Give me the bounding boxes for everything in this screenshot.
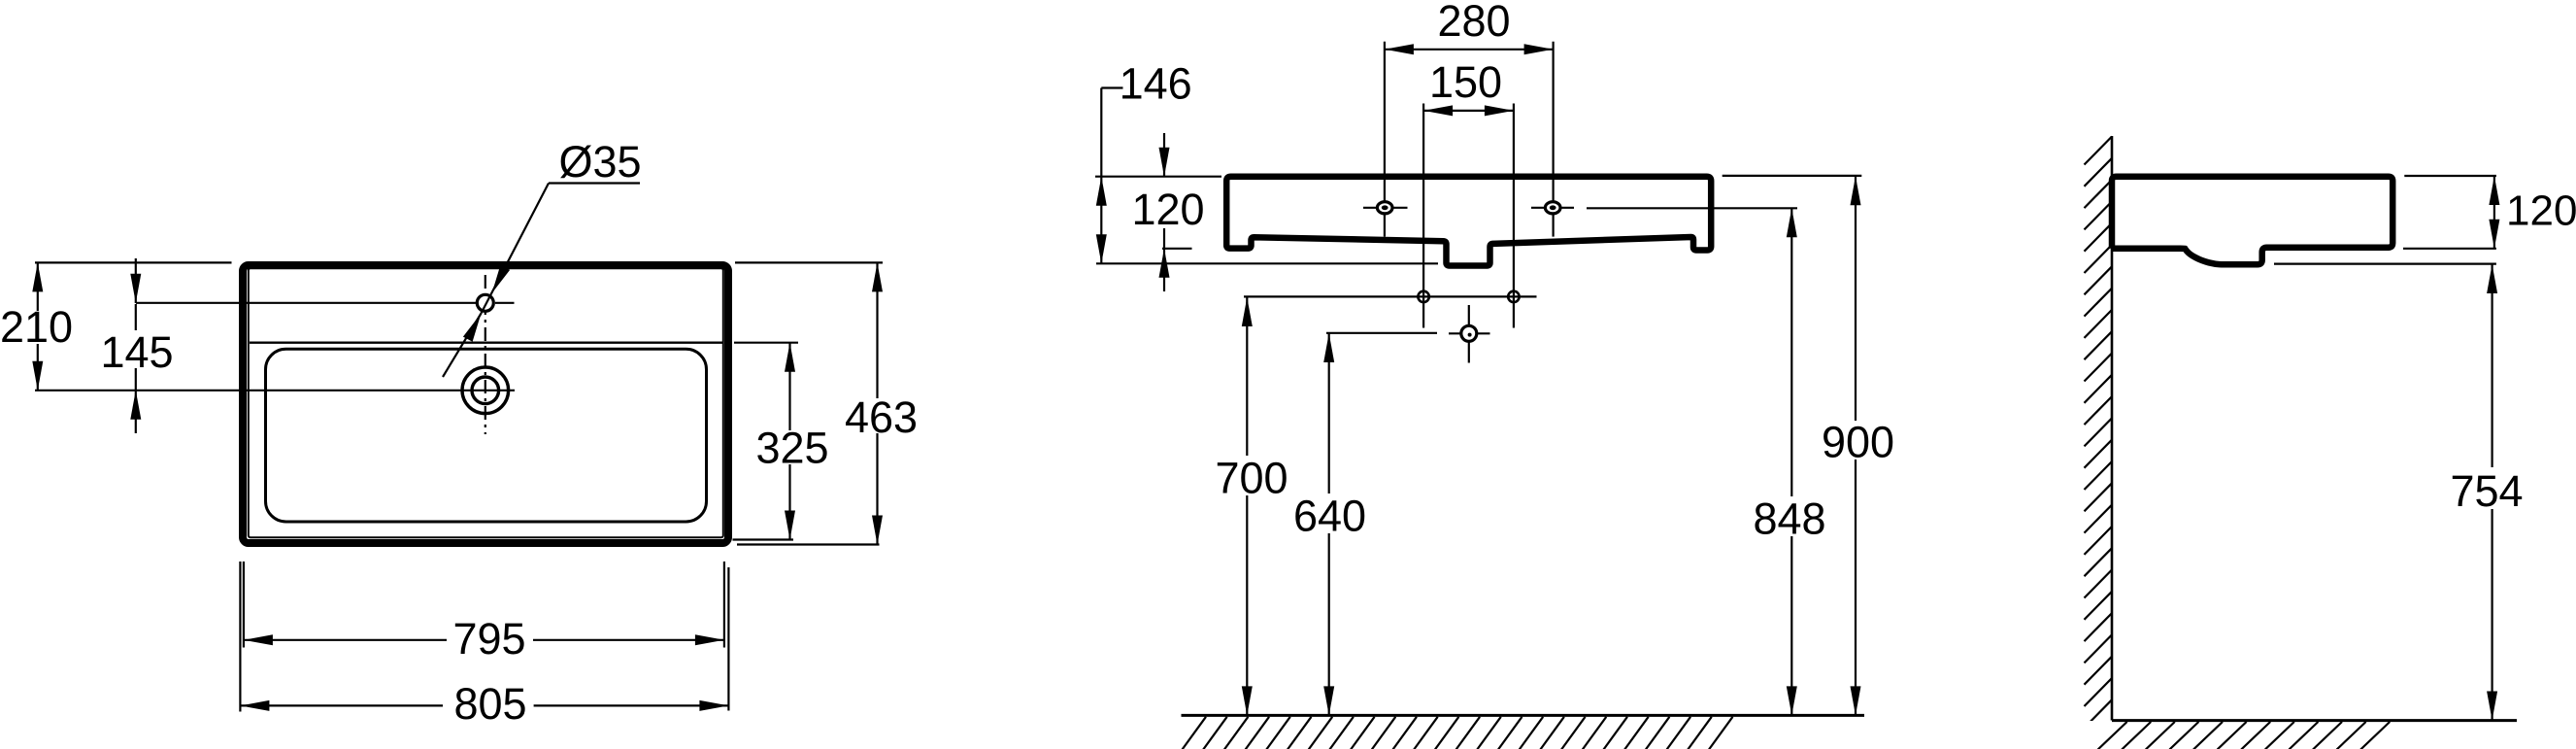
label O35 lower leader line bbox=[443, 314, 482, 378]
dim 210 arrow down bbox=[32, 361, 43, 391]
drain centerline horizontal bbox=[35, 390, 515, 392]
right fixing hole bbox=[1508, 291, 1519, 302]
dim 145 arrow up bbox=[130, 391, 141, 420]
label O35 upper arrowhead bbox=[492, 265, 511, 293]
svg-text:120: 120 bbox=[2506, 187, 2576, 235]
dim 145 arrow down bbox=[130, 274, 141, 303]
dim 754 line bbox=[2492, 264, 2493, 467]
side floor hatching bbox=[2098, 722, 2127, 749]
dim 210 line bbox=[37, 262, 39, 311]
svg-text:210: 210 bbox=[0, 302, 73, 352]
dim 463 arrow up bbox=[872, 262, 883, 291]
dim 120 ref tick bbox=[1162, 248, 1192, 250]
dim 150 extension left bbox=[1422, 104, 1424, 328]
dim 145 tail top bbox=[135, 258, 137, 303]
dim 120 lower segment bbox=[1163, 228, 1165, 249]
side drain-bottom extension line bbox=[2274, 263, 2496, 265]
dim 463 line bbox=[876, 262, 878, 398]
dim 754 arrow down bbox=[2487, 692, 2497, 721]
dim 280 arrow left bbox=[1385, 44, 1414, 54]
dim 795 line bbox=[244, 639, 447, 641]
dim 795 arrow left bbox=[244, 634, 273, 645]
faucet hole centerline horizontal bbox=[136, 302, 476, 304]
label O35 lower arrowhead bbox=[463, 314, 482, 342]
front floor line bbox=[1182, 714, 1865, 717]
side dim 120 arrow down bbox=[2489, 220, 2499, 249]
left fixing hole bbox=[1418, 291, 1428, 302]
drain outer circle bbox=[462, 367, 509, 414]
wall hatching bbox=[2085, 137, 2113, 729]
front top extension line bbox=[1095, 176, 1221, 178]
svg-text:145: 145 bbox=[100, 327, 173, 377]
svg-text:280: 280 bbox=[1437, 0, 1510, 46]
dim 463 extension top bbox=[735, 261, 883, 263]
side dim 120 arrow up bbox=[2489, 176, 2499, 205]
dim 900 arrow down bbox=[1851, 686, 1861, 715]
svg-text:150: 150 bbox=[1429, 57, 1502, 107]
svg-text:754: 754 bbox=[2450, 466, 2523, 516]
top view inner rim line bbox=[249, 268, 723, 537]
side floor line bbox=[2112, 719, 2517, 722]
dim 795 extension right bbox=[723, 562, 725, 648]
dim 210 arrow up bbox=[32, 262, 43, 291]
label O35 underline bbox=[549, 182, 640, 184]
dim 900 extension line bbox=[1723, 175, 1862, 177]
dim 325 arrow down bbox=[785, 511, 795, 540]
dim 805 arrow right bbox=[699, 700, 728, 711]
dim 146 arrow down bbox=[1096, 234, 1107, 263]
front drain-bottom extension line bbox=[1096, 262, 1438, 264]
dim 145 tail bottom bbox=[135, 391, 137, 433]
svg-text:120: 120 bbox=[1131, 185, 1204, 234]
svg-text:795: 795 bbox=[452, 614, 525, 664]
side view sink outline (thick) bbox=[2112, 177, 2392, 265]
dim 146 arrow up bbox=[1096, 177, 1107, 206]
dim 848 arrow down bbox=[1787, 686, 1797, 715]
dim 795 extension left bbox=[243, 562, 245, 648]
dim 805 extension left bbox=[239, 562, 241, 712]
dim 146 ref tick bbox=[1101, 86, 1122, 88]
dim 848 line bbox=[1790, 208, 1792, 496]
dim 805 line bbox=[240, 704, 443, 706]
side dim 120 line bbox=[2493, 176, 2495, 249]
svg-text:848: 848 bbox=[1753, 494, 1825, 544]
dim 848 extension line bbox=[1587, 207, 1797, 209]
dim 120 arrow up bbox=[1159, 249, 1170, 278]
overflow hole horizontal centerline bbox=[1449, 332, 1490, 334]
front floor hatching bbox=[1183, 717, 1207, 749]
dim 325 extension bottom bbox=[733, 538, 794, 540]
dim 640 extension line bbox=[1326, 332, 1437, 334]
faucet hole circle bbox=[477, 294, 493, 311]
side dim 120 extension top bbox=[2404, 175, 2496, 177]
dim 325 extension top bbox=[734, 342, 798, 344]
dim 700 arrow up bbox=[1242, 297, 1253, 326]
dim 145 line segments bbox=[135, 304, 137, 330]
side dim 120 extension bottom bbox=[2403, 248, 2496, 250]
overflow hole circle bbox=[1461, 325, 1477, 341]
dim 463 arrow down bbox=[872, 516, 883, 545]
dim 280 extension left bbox=[1384, 42, 1386, 237]
top view basin bowl (rounded rect) bbox=[266, 349, 707, 522]
dim 120 tail top bbox=[1163, 133, 1165, 177]
dim 805 arrow left bbox=[240, 700, 269, 711]
overflow hole vertical centerline bbox=[1468, 305, 1470, 363]
dim 900 line bbox=[1855, 176, 1857, 421]
drain inner circle bbox=[472, 377, 499, 404]
dim 325 arrow up bbox=[785, 343, 795, 372]
svg-text:325: 325 bbox=[755, 424, 828, 473]
svg-text:805: 805 bbox=[453, 679, 526, 729]
dim 900 arrow up bbox=[1851, 176, 1861, 205]
dim 210 extension line top bbox=[35, 261, 232, 263]
svg-text:463: 463 bbox=[845, 392, 918, 442]
fixing holes line bbox=[1244, 295, 1537, 297]
dim 795 arrow right bbox=[695, 634, 724, 645]
dim 700 arrow down bbox=[1242, 686, 1253, 715]
dim 280 arrow right bbox=[1524, 44, 1554, 54]
dim 150 extension right bbox=[1513, 104, 1515, 328]
label O35 leader line bbox=[482, 184, 550, 314]
top view outer rim (thick) bbox=[243, 265, 728, 543]
dim 325 line bbox=[788, 343, 790, 430]
dim 146 line bbox=[1100, 88, 1102, 264]
dim 805 extension right bbox=[727, 567, 729, 711]
dim 120 tail bottom bbox=[1163, 249, 1165, 291]
dim 640 arrow down bbox=[1323, 686, 1334, 715]
dim 463 extension bottom bbox=[737, 543, 880, 545]
dim 150 line bbox=[1423, 110, 1514, 112]
dim 640 line bbox=[1328, 333, 1330, 494]
dim 280 line bbox=[1385, 49, 1554, 51]
top view basin back edge line bbox=[250, 342, 723, 344]
svg-text:640: 640 bbox=[1293, 492, 1366, 541]
dim 754 arrow up bbox=[2487, 264, 2497, 293]
dim 848 arrow up bbox=[1787, 208, 1797, 237]
dim 120 arrow down bbox=[1159, 148, 1170, 177]
dim 280 extension right bbox=[1552, 42, 1554, 237]
front view sink outline (thick) bbox=[1226, 177, 1711, 266]
dim 150 arrow right bbox=[1485, 105, 1514, 116]
dim 150 arrow left bbox=[1423, 105, 1453, 116]
dim 640 arrow up bbox=[1323, 333, 1334, 362]
svg-text:146: 146 bbox=[1120, 59, 1192, 109]
wall line bbox=[2111, 136, 2114, 721]
svg-text:Ø35: Ø35 bbox=[558, 137, 641, 187]
front left faucet hole bbox=[1377, 202, 1392, 214]
svg-text:700: 700 bbox=[1215, 454, 1288, 503]
dim 700 line bbox=[1246, 297, 1248, 456]
vertical dash-dot centerline bbox=[485, 275, 486, 434]
svg-text:900: 900 bbox=[1822, 418, 1894, 467]
front right faucet hole cross bbox=[1531, 207, 1574, 209]
front left faucet hole cross bbox=[1363, 207, 1408, 209]
front right faucet hole bbox=[1545, 202, 1560, 214]
